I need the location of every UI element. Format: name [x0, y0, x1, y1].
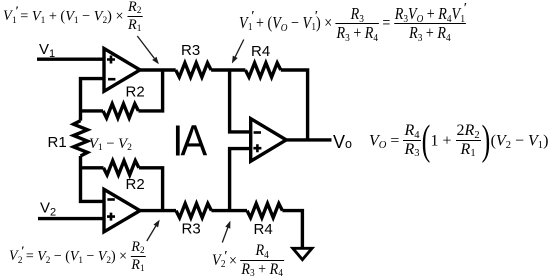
formula node V1'' top-right [239, 8, 466, 40]
pin - of U2 [107, 198, 114, 201]
formula node V1' top-left [3, 2, 142, 32]
wire: U1 inverting input feedback column [81, 79, 105, 121]
ground [293, 248, 312, 259]
pin + of U1 [107, 56, 115, 64]
op-amp U3 [251, 119, 287, 162]
pin - of U3 [254, 131, 261, 134]
node label V1 - V2 across R1 [89, 137, 132, 152]
formula Vo right [369, 124, 548, 160]
wire: R2 top row left lead [81, 109, 104, 112]
wire: node D up to U3 non-inverting input [230, 149, 251, 211]
op-amp U1 [104, 49, 140, 92]
svg-text:R4: R4 [251, 43, 270, 60]
svg-text:R2: R2 [126, 83, 145, 100]
resistor R2 (bottom feedback) [104, 161, 139, 175]
wire: top rail U1 output through R3,R4 down to U3 output [140, 68, 176, 71]
wire: V1 input to op-amp U1 + [37, 58, 104, 61]
wire: R2 bottom row right lead down to U2 output node C [139, 168, 163, 211]
svg-text:V1: V1 [39, 41, 55, 60]
resistor R4 (top) [245, 63, 280, 77]
wire: node B segment between R3 and R4 top [211, 68, 245, 71]
wire: node B down to U3 inverting input [230, 70, 251, 132]
formula node V2' bottom-left [9, 242, 145, 272]
svg-text:IA: IA [172, 116, 207, 165]
svg-text:R4: R4 [254, 221, 273, 238]
wire: R2 bottom row left lead [81, 166, 104, 169]
resistor R3 (bottom) [176, 204, 211, 218]
pin + of U2 [107, 213, 115, 221]
svg-text:V2: V2 [40, 199, 56, 218]
annotation arrow to node C [147, 226, 156, 241]
svg-text:Vo: Vo [333, 132, 352, 152]
svg-text:R3: R3 [181, 42, 200, 59]
wire: V2 input to op-amp U2 + [38, 217, 104, 220]
wire: node D segment between R3 and R4 bottom [211, 209, 247, 212]
wire: column from R1 down to U2 inverting input [81, 156, 105, 201]
annotation arrow to node D [222, 228, 228, 243]
resistor R1 [74, 121, 88, 156]
wire: bottom rail U2 output to R3 [140, 209, 176, 212]
resistor R4 (bottom) [247, 204, 282, 218]
wire: top-right corner down to U3 output node [281, 70, 308, 140]
wire: U3 output to Vo [286, 138, 332, 141]
wire: R2 top row right lead up to U1 output node A [138, 70, 162, 111]
svg-text:R3: R3 [182, 221, 201, 238]
formula node V2'' bottom-middle [212, 246, 284, 278]
annotation arrow to node B [235, 40, 244, 57]
resistor R3 (top) [176, 63, 211, 77]
resistor R2 (top feedback) [103, 104, 138, 118]
annotation arrow to node A [137, 36, 154, 58]
wire: bottom-right corner down to ground [282, 211, 302, 248]
svg-text:R1: R1 [48, 134, 67, 151]
op-amp U2 [104, 189, 140, 231]
pin + of U3 [253, 144, 261, 152]
pin - of U1 [108, 78, 115, 81]
svg-text:R2: R2 [126, 176, 145, 193]
